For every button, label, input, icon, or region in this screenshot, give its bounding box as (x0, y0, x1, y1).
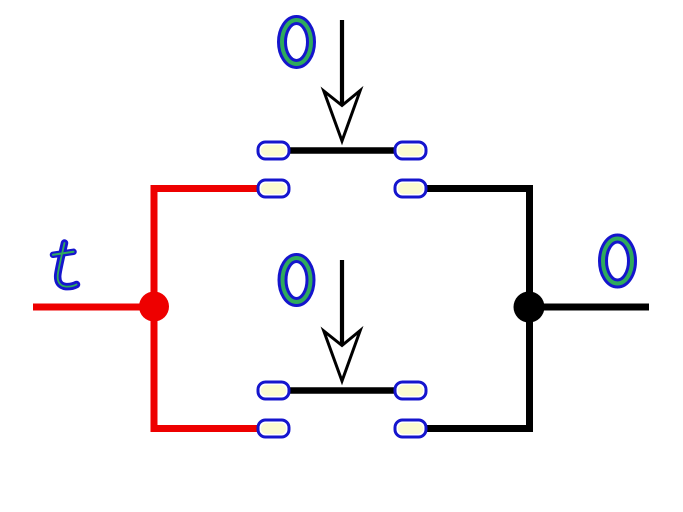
wire: red branch to top switch left contact (151, 185, 274, 192)
contact pill S1 top-right (395, 142, 426, 159)
arrow: top control arrow shaft (340, 20, 344, 106)
contact pill S2 top-right (395, 382, 426, 399)
contact pill S2 top-left (258, 382, 289, 399)
wire: black output stub to right (530, 304, 650, 311)
wire: red branch to bottom switch left contact (151, 425, 274, 432)
label 0 top control (282, 20, 311, 64)
switch S1 movable bar (273, 147, 410, 154)
label 0 output (603, 239, 632, 284)
label t input (53, 243, 77, 287)
contact pill S1 bottom-left (258, 180, 289, 197)
contact pill S2 bottom-right (395, 420, 426, 437)
node: black junction dot (514, 292, 545, 323)
contact pill S1 top-left (258, 142, 289, 159)
arrow: bottom control arrowhead (324, 331, 360, 382)
wire: red vertical branch line (151, 189, 158, 429)
label 0 bottom control (283, 258, 311, 302)
wire: red input stub from left edge to junction (33, 304, 154, 311)
node: red junction dot (139, 292, 169, 322)
arrow: bottom control arrow shaft (340, 260, 344, 346)
contact pill S1 bottom-right (395, 180, 426, 197)
wire: black from top switch right contact to right vertical (410, 185, 533, 192)
wire: black right vertical line (526, 189, 533, 429)
wire: black from bottom switch right contact to right vertical (410, 425, 533, 432)
contact pill S2 bottom-left (258, 420, 289, 437)
switch S2 movable bar (273, 387, 410, 394)
arrow: top control arrowhead (324, 91, 360, 142)
